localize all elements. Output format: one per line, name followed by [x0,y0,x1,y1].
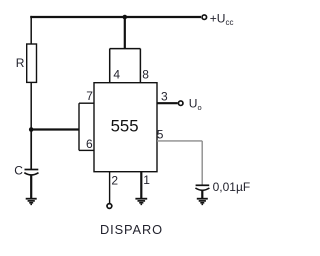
svg-text:2: 2 [111,174,118,188]
svg-text:5: 5 [157,128,164,142]
wire junction down to C [30,130,32,170]
wire R bottom lead [30,82,32,129]
svg-text:7: 7 [86,89,93,103]
wire pin 2 lead [109,172,111,203]
wire bracket vertical 7-6 [78,103,80,150]
wire C to ground [30,175,32,199]
wire pin 5 vertical down to cap (grey) [201,141,203,185]
wire cap to ground [201,190,203,198]
wire pin 4 lead [109,49,111,83]
wire 4-8 bus bar [110,48,141,50]
svg-text:4: 4 [113,68,120,82]
wire junction to pins 7-6 bracket [31,128,79,130]
capacitor 0,01uF [195,185,209,190]
svg-text:0,01µF: 0,01µF [213,180,251,194]
svg-text:6: 6 [86,137,93,151]
ground under 0,01uF [197,199,208,205]
wire pin 5 horizontal (grey) [157,140,202,142]
svg-text:3: 3 [161,90,168,104]
ground under C [26,199,37,205]
svg-text:R: R [16,56,25,70]
wire pin 3 output [157,102,178,104]
svg-text:8: 8 [142,68,149,82]
ground under pin 1 [135,199,147,205]
resistor R [27,44,37,82]
wire pin 1 lead [140,172,142,199]
wire pin 8 lead [139,49,141,83]
svg-text:1: 1 [143,173,150,187]
terminal +Ucc [202,15,207,20]
wire top +Ucc rail [30,16,201,18]
op-amp / IC 555 [94,83,157,172]
wire R top lead [30,16,32,44]
svg-text:DISPARO: DISPARO [100,222,163,237]
node RC junction [29,127,34,132]
node junction on rail [123,15,128,20]
svg-text:555: 555 [111,117,139,136]
wire center drop from rail to 4-8 bus [124,17,126,49]
svg-text:C: C [14,164,23,178]
capacitor C [24,170,38,175]
terminal DISPARO (trigger) [107,204,112,209]
wire pin 7 lead [79,102,94,104]
terminal Uo [178,101,183,106]
wire pin 6 lead [79,149,94,151]
